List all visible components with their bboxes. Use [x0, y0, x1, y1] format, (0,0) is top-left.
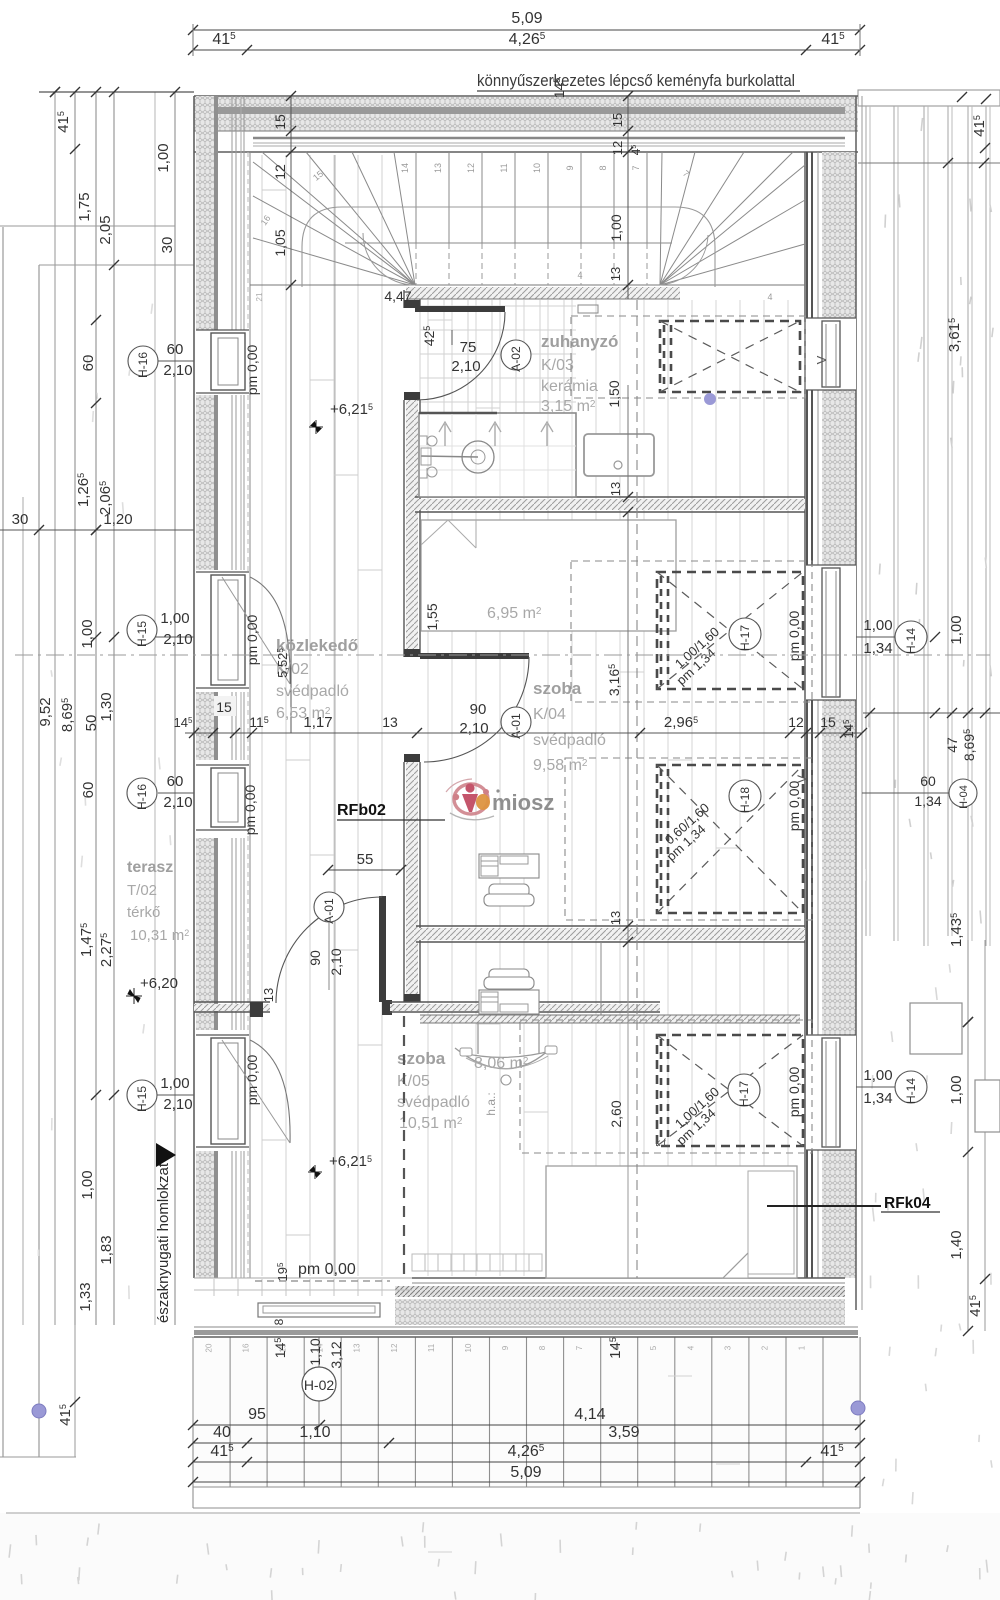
svg-text:8: 8 [598, 165, 608, 170]
svg-text:10,31 m2: 10,31 m2 [130, 927, 189, 944]
svg-text:térkő: térkő [127, 904, 160, 921]
svg-text:T/02: T/02 [127, 882, 157, 899]
svg-text:4: 4 [686, 1345, 695, 1350]
svg-text:északnyugati homlokzat: északnyugati homlokzat [155, 1162, 172, 1323]
svg-text:A-02: A-02 [509, 346, 523, 372]
svg-text:1,00: 1,00 [948, 1075, 965, 1104]
svg-text:H-14: H-14 [904, 628, 918, 654]
svg-text:12: 12 [390, 1343, 399, 1352]
svg-text:13: 13 [382, 714, 398, 730]
svg-text:szoba: szoba [533, 679, 582, 698]
svg-text:2,05: 2,05 [97, 215, 114, 244]
svg-text:1,20: 1,20 [103, 511, 132, 528]
svg-text:zuhanyzó: zuhanyzó [541, 332, 618, 351]
svg-text:2,10: 2,10 [163, 794, 192, 811]
svg-text:2,10: 2,10 [451, 358, 480, 375]
svg-text:1,00: 1,00 [79, 1170, 96, 1199]
svg-text:4: 4 [577, 270, 582, 280]
svg-text:+6,215: +6,215 [329, 1153, 372, 1170]
svg-text:30: 30 [159, 237, 176, 254]
svg-text:H-15: H-15 [135, 621, 149, 647]
svg-text:H-02: H-02 [304, 1377, 335, 1393]
svg-text:1,00: 1,00 [863, 617, 892, 634]
svg-text:11: 11 [427, 1343, 436, 1352]
svg-text:1,55: 1,55 [424, 603, 440, 630]
svg-text:12: 12 [788, 714, 804, 730]
svg-text:21: 21 [255, 292, 264, 301]
svg-text:60: 60 [167, 773, 184, 790]
svg-text:svédpadló: svédpadló [276, 683, 349, 700]
svg-text:A-01: A-01 [509, 713, 523, 739]
svg-text:1,00: 1,00 [79, 619, 96, 648]
svg-text:3,15 m2: 3,15 m2 [541, 398, 596, 415]
svg-text:9,52: 9,52 [37, 697, 54, 726]
svg-text:13: 13 [433, 163, 443, 173]
svg-text:1,10: 1,10 [307, 1338, 323, 1365]
svg-text:75: 75 [460, 339, 477, 356]
svg-text:pm 0,00: pm 0,00 [786, 1066, 802, 1117]
svg-text:H-04: H-04 [958, 785, 970, 809]
svg-text:1,10: 1,10 [299, 1424, 330, 1441]
svg-text:H-18: H-18 [738, 787, 752, 813]
svg-text:H-15: H-15 [135, 1086, 149, 1112]
svg-text:9: 9 [501, 1345, 510, 1350]
svg-text:2,10: 2,10 [459, 720, 488, 737]
svg-text:8,695: 8,695 [59, 698, 76, 732]
svg-text:könnyűszerkezetes lépcső kemén: könnyűszerkezetes lépcső keményfa burkol… [477, 72, 795, 90]
svg-text:9: 9 [565, 165, 575, 170]
svg-text:60: 60 [920, 773, 936, 789]
svg-text:közlekedő: közlekedő [276, 636, 358, 655]
svg-text:8,06 m2: 8,06 m2 [474, 1055, 529, 1072]
svg-text:2,10: 2,10 [163, 1096, 192, 1113]
svg-text:50: 50 [83, 715, 100, 732]
svg-text:3,12: 3,12 [328, 1341, 344, 1368]
svg-text:1,00: 1,00 [948, 615, 965, 644]
svg-text:90: 90 [470, 701, 487, 718]
svg-text:13: 13 [608, 267, 623, 281]
svg-text:1,00: 1,00 [160, 610, 189, 627]
svg-text:RFk04: RFk04 [884, 1195, 931, 1212]
svg-text:1,75: 1,75 [76, 192, 93, 221]
svg-text:+6,215: +6,215 [330, 401, 373, 418]
svg-text:V: V [795, 775, 809, 783]
svg-text:2: 2 [760, 1345, 769, 1350]
svg-text:K/03: K/03 [541, 357, 574, 374]
svg-text:90: 90 [307, 950, 323, 966]
svg-text:15: 15 [820, 714, 836, 730]
svg-text:1: 1 [798, 1345, 807, 1350]
svg-text:pm 0,00: pm 0,00 [244, 344, 260, 395]
svg-text:5,09: 5,09 [511, 10, 542, 27]
svg-text:60: 60 [80, 782, 97, 799]
svg-text:30: 30 [12, 511, 29, 528]
svg-text:2,10: 2,10 [328, 948, 344, 975]
svg-text:1,475: 1,475 [78, 923, 95, 957]
svg-text:11: 11 [499, 163, 509, 172]
svg-text:12: 12 [610, 141, 625, 155]
svg-text:H-16: H-16 [136, 352, 150, 378]
svg-text:13: 13 [261, 988, 276, 1002]
svg-text:9,58 m2: 9,58 m2 [533, 757, 588, 774]
svg-text:1,33: 1,33 [77, 1282, 94, 1311]
svg-text:3: 3 [723, 1345, 732, 1350]
svg-text:12: 12 [272, 164, 288, 180]
svg-text:6,95 m2: 6,95 m2 [487, 605, 542, 622]
svg-text:1,40: 1,40 [948, 1230, 965, 1259]
svg-text:40: 40 [213, 1424, 231, 1441]
svg-text:k.f,: k.f, [655, 1138, 668, 1149]
svg-text:+6,20: +6,20 [140, 975, 178, 992]
svg-text:h.a.:: h.a.: [484, 1092, 498, 1115]
svg-text:svédpadló: svédpadló [397, 1094, 470, 1111]
svg-text:1,34: 1,34 [863, 640, 892, 657]
svg-text:1,30: 1,30 [98, 692, 115, 721]
svg-text:1,83: 1,83 [98, 1235, 115, 1264]
svg-text:V: V [814, 355, 829, 364]
svg-text:8: 8 [272, 1318, 286, 1325]
svg-text:1,34: 1,34 [914, 793, 941, 809]
svg-text:pm 0,00: pm 0,00 [242, 784, 258, 835]
svg-text:7: 7 [575, 1345, 584, 1350]
svg-text:K/04: K/04 [533, 706, 566, 723]
svg-text:pm 0,00: pm 0,00 [786, 610, 802, 661]
svg-text:4,47: 4,47 [384, 288, 411, 304]
svg-text:pm 0,00: pm 0,00 [244, 1054, 260, 1105]
svg-text:pm 0,00: pm 0,00 [786, 780, 802, 831]
svg-text:kerámia: kerámia [541, 378, 598, 395]
svg-text:1,05: 1,05 [272, 229, 288, 256]
svg-text:3,59: 3,59 [608, 1424, 639, 1441]
svg-text:3,615: 3,615 [946, 318, 963, 352]
svg-text:2,10: 2,10 [163, 631, 192, 648]
svg-text:svédpadló: svédpadló [533, 732, 606, 749]
svg-text:7: 7 [631, 165, 641, 170]
svg-text:12: 12 [466, 163, 476, 173]
svg-text:4: 4 [767, 292, 772, 302]
svg-text:miosz: miosz [492, 790, 554, 815]
svg-text:10: 10 [464, 1343, 473, 1352]
svg-text:1,00: 1,00 [863, 1067, 892, 1084]
svg-text:55: 55 [357, 851, 374, 868]
svg-text:2,10: 2,10 [163, 362, 192, 379]
svg-text:10: 10 [532, 163, 542, 173]
svg-text:H-14: H-14 [904, 1078, 918, 1104]
svg-text:1,34: 1,34 [863, 1090, 892, 1107]
svg-text:1,00: 1,00 [608, 214, 624, 241]
svg-text:terasz: terasz [127, 859, 173, 876]
svg-text:1,00: 1,00 [160, 1075, 189, 1092]
svg-text:13: 13 [608, 911, 623, 925]
svg-text:2,60: 2,60 [608, 1100, 624, 1127]
svg-text:1,00: 1,00 [155, 143, 172, 172]
svg-text:H-16: H-16 [135, 784, 149, 810]
svg-text:16: 16 [242, 1343, 251, 1352]
svg-text:14: 14 [400, 163, 410, 173]
svg-text:5,09: 5,09 [510, 1464, 541, 1481]
svg-text:13: 13 [353, 1343, 362, 1352]
svg-text:13: 13 [608, 482, 623, 496]
svg-text:pm 0,00: pm 0,00 [298, 1261, 356, 1278]
svg-text:pm 0,00: pm 0,00 [244, 614, 260, 665]
svg-text:K/05: K/05 [397, 1073, 430, 1090]
svg-text:60: 60 [80, 355, 97, 372]
svg-text:15: 15 [610, 113, 625, 127]
svg-text:10,51 m2: 10,51 m2 [399, 1115, 463, 1132]
svg-text:1,50: 1,50 [606, 380, 622, 407]
svg-text:1,265: 1,265 [75, 473, 92, 507]
svg-text:95: 95 [248, 1406, 266, 1423]
svg-text:RFb02: RFb02 [337, 802, 386, 819]
svg-text:2,065: 2,065 [97, 481, 114, 515]
svg-text:4,14: 4,14 [574, 1406, 605, 1423]
svg-text:H-17: H-17 [737, 1081, 751, 1107]
svg-text:20: 20 [205, 1343, 214, 1352]
svg-text:5: 5 [649, 1345, 658, 1350]
svg-text:15: 15 [216, 699, 232, 715]
svg-text:8: 8 [538, 1345, 547, 1350]
svg-text:47: 47 [944, 737, 960, 753]
svg-text:1,435: 1,435 [948, 913, 965, 947]
svg-text:2,275: 2,275 [98, 933, 115, 967]
svg-text:60: 60 [167, 341, 184, 358]
svg-text:A-01: A-01 [322, 898, 336, 924]
svg-text:1,17: 1,17 [303, 714, 332, 731]
svg-text:2,965: 2,965 [664, 714, 698, 731]
svg-text:15: 15 [272, 114, 288, 130]
svg-text:H-17: H-17 [738, 625, 752, 651]
